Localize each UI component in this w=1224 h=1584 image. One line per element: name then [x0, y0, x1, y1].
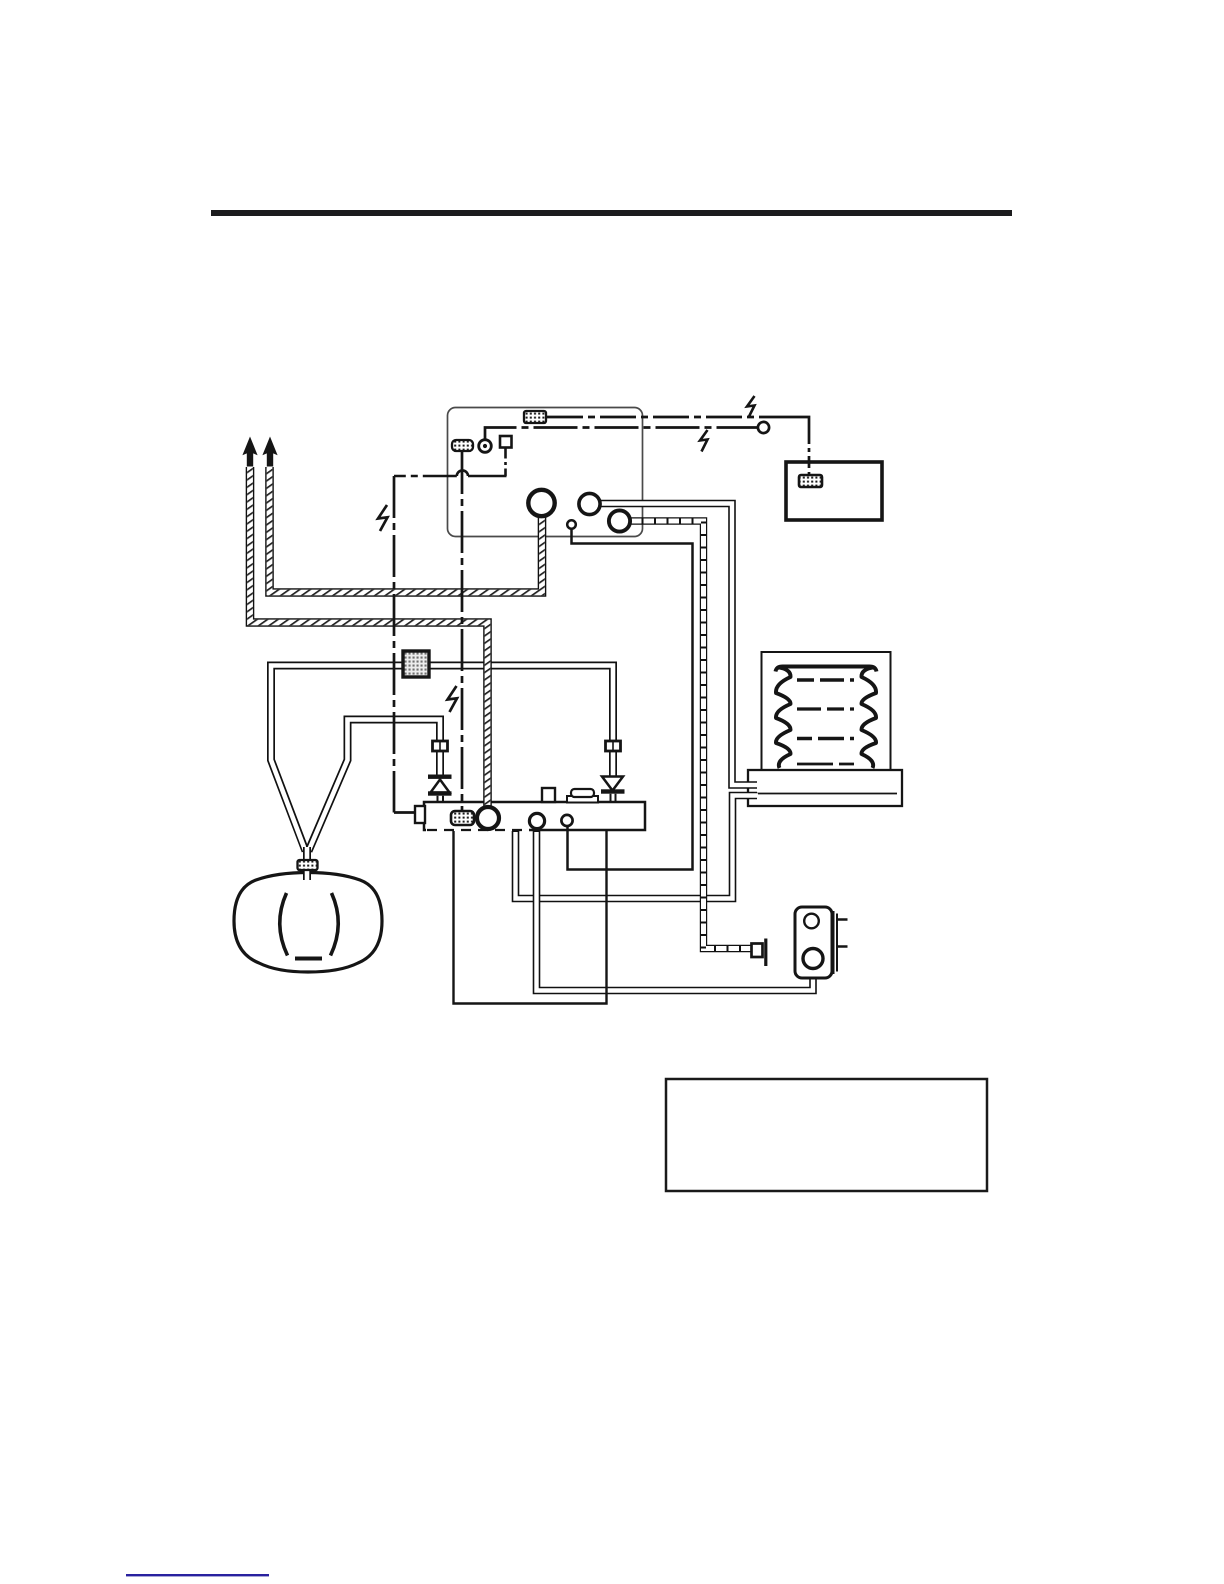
arrow up 1: [242, 437, 257, 467]
lightning bolt left: [378, 505, 388, 531]
circle-dot symbol: [479, 440, 492, 453]
Y hatched fitting: [298, 860, 318, 870]
manifold bottom dashed edge: [426, 828, 529, 831]
wire: ignition terminal line: [485, 428, 758, 441]
base plate seam: [756, 793, 897, 795]
wire: connector 2 drop to manifold connector: [461, 452, 464, 810]
pipe: check valve L branch to Y-branch: [309, 720, 441, 852]
switch top circle: [804, 914, 819, 929]
air cleaner base plate: [748, 770, 902, 806]
engine outline box: [448, 408, 643, 537]
bellows pleat dashes: [797, 678, 854, 681]
tank inner left arc: [280, 893, 288, 956]
top horizontal rule: [211, 210, 1012, 216]
port circle 1: [579, 493, 600, 514]
battery box top right: [786, 462, 882, 520]
wire: connector 1 to battery (top): [547, 416, 796, 419]
manifold port circle B: [561, 815, 572, 826]
vacuum tank (reservoir): [234, 873, 382, 973]
switch ticks: [837, 920, 848, 947]
hose: hatched hose to arrow 2 (inner, from distributor circle): [270, 467, 543, 593]
lightning bolt top right upper: [747, 396, 755, 418]
wire: square sensor drop: [504, 448, 507, 476]
distributor circle (big): [528, 490, 554, 516]
manifold left tab: [415, 806, 425, 823]
hatched connector 2: [452, 440, 473, 451]
hose: hatched hose to arrow 1 (outer): [250, 467, 488, 809]
bellows top line: [776, 666, 877, 671]
battery hatched connector: [799, 475, 822, 487]
wire: sensor stem to manifold port B: [568, 528, 693, 870]
pipe: Y stem to tank: [303, 847, 311, 881]
hatched connector 1 (top): [524, 411, 546, 423]
wire: manifold U hose line: [454, 831, 607, 1004]
fuel filter: [403, 651, 429, 677]
blue underline bottom left: [126, 1574, 269, 1576]
arrow up 2: [262, 437, 277, 467]
check valve left: [428, 775, 452, 779]
hose end fitting square: [752, 944, 763, 958]
intake manifold body: [424, 802, 645, 830]
lightning bolt center: [448, 686, 458, 712]
port circle 2: [609, 510, 630, 531]
manifold port circle A: [529, 813, 544, 828]
kick-down switch body: [795, 907, 832, 978]
wire: long drop to manifold tab: [393, 476, 396, 813]
check valve right: [602, 777, 623, 791]
bellows right wave: [861, 668, 876, 769]
clamp left: [433, 741, 448, 751]
terminal circle: [758, 422, 769, 433]
tank inner bottom line: [295, 957, 322, 961]
manifold small square fitting: [542, 788, 555, 802]
bellows left wave: [776, 668, 791, 769]
switch bottom circle: [803, 949, 823, 969]
hose: dashed hose port circle 2 to kick-down fitting: [629, 521, 752, 949]
hose end T bar: [764, 939, 767, 967]
manifold big port circle: [477, 807, 499, 829]
manifold domed fitting: [567, 796, 598, 803]
sensor stem circle: [567, 520, 576, 529]
square symbol: [500, 436, 512, 448]
pipe: manifold port to pump lower port: [537, 831, 814, 991]
wire: battery drop: [808, 432, 811, 474]
pipe: port circle 1 to air cleaner base upper port: [599, 504, 758, 786]
pipe: filter line (check valve R to Y-branch): [271, 666, 613, 852]
air cleaner outer housing: [762, 652, 891, 771]
lightning bolt top right lower: [700, 430, 708, 452]
note rectangle (empty callout box): [666, 1079, 987, 1191]
tank inner right arc: [331, 893, 339, 956]
wire: horizontal run with hop: [468, 475, 507, 478]
pipe: air cleaner base lower port to manifold port: [516, 796, 759, 899]
manifold hatched connector: [451, 811, 474, 825]
clamp right: [606, 741, 621, 751]
switch right flange: [833, 911, 835, 974]
